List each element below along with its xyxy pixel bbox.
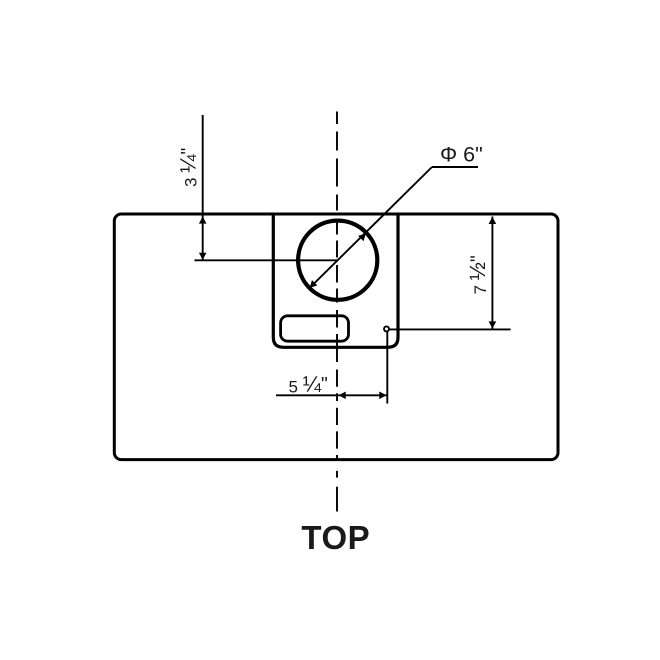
svg-text:Φ 6": Φ 6"	[440, 143, 483, 167]
svg-text:7 ½": 7 ½"	[465, 255, 490, 294]
diameter leader diagonal line	[310, 167, 432, 288]
main body outline (rounded rectangle, top view)	[114, 214, 558, 460]
svg-text:TOP: TOP	[301, 519, 370, 556]
arrowhead up (7 1/2 dim)	[489, 217, 497, 224]
horizontal reference line to circle center	[195, 259, 338, 261]
diameter leader horizontal underline	[432, 166, 478, 168]
extension / dimension line for 3 1/4 dim	[202, 115, 204, 260]
corner reference dot	[384, 326, 389, 331]
arrowhead left (5 1/4 dim)	[339, 392, 346, 400]
arrowhead right (5 1/4 dim)	[379, 392, 386, 400]
arrowhead up (3 1/4 dim)	[199, 217, 207, 224]
vertical extension line below dot	[386, 332, 388, 404]
circular hole (6 inch)	[298, 221, 377, 300]
arrowhead lower-left on circle	[310, 280, 318, 288]
arrowhead down (7 1/2 dim)	[489, 321, 497, 328]
dimension line for 5 1/4 dim	[276, 394, 387, 396]
svg-text:3 ¼": 3 ¼"	[176, 148, 201, 187]
svg-text:5 ¼": 5 ¼"	[289, 372, 328, 397]
horizontal reference line from corner dot	[389, 328, 511, 330]
dimension line for 7 1/2 dim	[491, 217, 493, 329]
arrowhead down (3 1/4 dim)	[199, 253, 207, 260]
rounded slot	[281, 316, 349, 341]
vertical dashed centerline	[336, 112, 338, 512]
recess cutout outline	[273, 215, 398, 348]
arrowhead upper-right on circle	[358, 234, 366, 242]
